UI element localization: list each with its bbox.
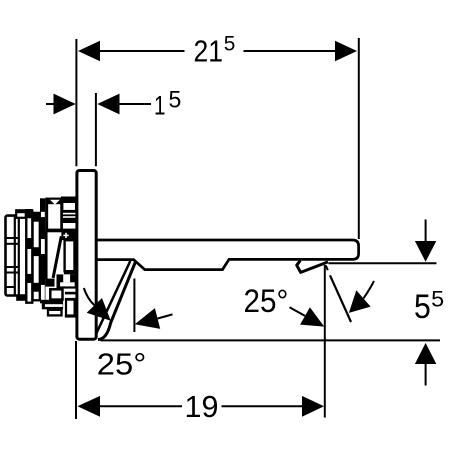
upper reference line at outlet level	[329, 262, 437, 264]
spout slanted support outer edge	[98, 261, 136, 340]
dimension 21.5 line	[99, 50, 185, 52]
nut top band	[61, 197, 76, 202]
right angle curved arrow	[364, 281, 375, 298]
top knob	[16, 210, 26, 218]
valve cartridge body	[47, 199, 62, 231]
spout body	[97, 240, 359, 270]
svg-text:25°: 25°	[97, 346, 147, 381]
band under spindle	[64, 271, 76, 275]
svg-text:21: 21	[194, 33, 224, 68]
left angle curved arrow	[84, 288, 95, 305]
lower stem block with T channel	[57, 274, 77, 288]
extension line plate left above	[75, 39, 77, 166]
arrow 21.5 left	[78, 41, 100, 62]
middle bar 1	[26, 211, 32, 303]
arrow 5.5 down	[425, 220, 427, 244]
dimension 19 line	[99, 405, 182, 407]
small step box	[48, 310, 62, 316]
lower right stripes	[65, 292, 76, 295]
arrow 1.5 right	[97, 94, 119, 115]
aerator outlet	[297, 261, 328, 273]
cartridge top band with V notch	[48, 200, 61, 205]
water jet line	[330, 275, 351, 322]
extension line plate left below	[75, 341, 77, 419]
svg-text:19: 19	[185, 389, 219, 424]
extension line aerator vertical	[324, 265, 326, 418]
arrow 19 right	[302, 396, 324, 417]
dark double-bar column	[40, 198, 45, 303]
wall plate	[77, 171, 96, 340]
spindle box	[65, 240, 75, 271]
union nut front box	[62, 202, 76, 211]
dimension 1.5 line	[46, 103, 55, 105]
arrow 21.5 right	[335, 41, 357, 62]
arrow 5.5 up	[425, 362, 427, 386]
svg-text:5: 5	[414, 288, 431, 326]
spout slanted support inner edge	[96, 261, 130, 334]
water jet dash	[326, 266, 328, 271]
svg-text:1: 1	[154, 90, 166, 120]
extension line spout tip	[358, 38, 360, 239]
lower right channel	[65, 301, 67, 318]
lower reference line at rim level	[101, 339, 441, 341]
bottom knob	[16, 296, 26, 301]
nut thread stripes	[62, 211, 76, 213]
dark square under funnel	[46, 279, 55, 287]
cartridge left edge lower	[45, 231, 48, 279]
left supply block	[6, 216, 27, 296]
small lower box	[50, 289, 62, 299]
funnel cone diagonal	[53, 236, 61, 278]
left angle extension line	[133, 279, 135, 333]
middle bar 2	[33, 213, 40, 300]
svg-text:25°: 25°	[244, 283, 289, 319]
svg-text:5: 5	[169, 87, 182, 114]
arrow 1.5 left	[54, 94, 76, 115]
arrow 19 left	[78, 396, 101, 417]
right angle straight arrow	[290, 307, 306, 316]
extension line plate right above	[95, 93, 97, 166]
lower left band with stripe	[42, 300, 63, 310]
left angle straight arrow	[135, 308, 160, 329]
svg-text:5: 5	[224, 32, 236, 55]
cartridge bottom band	[46, 229, 77, 233]
screw block	[61, 231, 76, 240]
svg-text:5: 5	[431, 286, 444, 311]
